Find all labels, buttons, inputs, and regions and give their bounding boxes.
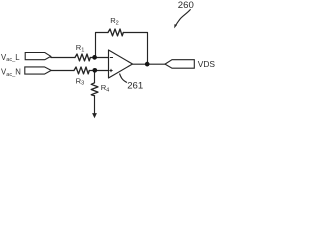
svg-text:260: 260	[178, 0, 194, 11]
svg-text:VDS: VDS	[198, 59, 216, 69]
svg-text:261: 261	[127, 80, 143, 91]
